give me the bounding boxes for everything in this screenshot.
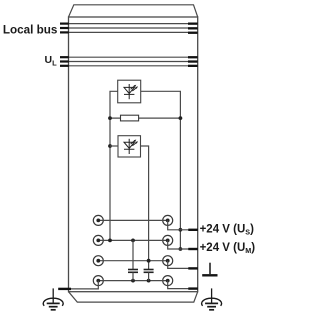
UL right terminal bars bbox=[188, 56, 198, 67]
wire row4 to right ground bar bbox=[168, 281, 198, 289]
terminal row 1 wire bbox=[98, 219, 167, 221]
wire row4 to left ground bar bbox=[69, 281, 99, 289]
UL left terminal bars bbox=[60, 56, 69, 67]
resistor R1 bbox=[121, 115, 139, 121]
terminal center dots bbox=[96, 219, 169, 283]
LED indicator D2 box bbox=[118, 136, 141, 157]
US feed bar bbox=[188, 229, 198, 231]
module body front face bbox=[69, 17, 198, 292]
LED D2 symbol bbox=[124, 139, 136, 154]
left protective earth symbol bbox=[43, 288, 63, 309]
local bus wire 2 bbox=[60, 27, 198, 29]
local bus wire 1 bbox=[60, 23, 198, 25]
junction dot net A / D2 bbox=[108, 144, 112, 148]
UL bus wire 1 bbox=[60, 56, 198, 58]
wire row2 to UM feed bar bbox=[168, 240, 198, 249]
LED D1 symbol bbox=[124, 84, 136, 99]
UM feed bar bbox=[188, 248, 198, 250]
wire D2 left pin bbox=[110, 145, 118, 147]
UL bus wire 3 bbox=[60, 65, 198, 67]
junction dot C1 top / row2 bbox=[131, 239, 135, 243]
terminal row 3 wire bbox=[98, 260, 167, 262]
wire row1 to US feed bar bbox=[168, 220, 198, 229]
wire D2 right to C2 rail bbox=[141, 146, 149, 270]
junction dot C1 bottom / row4 bbox=[131, 279, 135, 283]
LED D1 arrowheads bbox=[134, 85, 138, 89]
terminal circles right column bbox=[163, 215, 173, 285]
functional earth symbol bbox=[202, 263, 217, 276]
terminal circles left column bbox=[93, 215, 103, 285]
right protective earth symbol bbox=[202, 288, 222, 309]
local bus right terminal bars bbox=[188, 23, 198, 34]
local bus left terminal bars bbox=[60, 23, 69, 34]
UL bus wire 2 bbox=[60, 61, 198, 63]
LED indicator D1 box bbox=[118, 80, 141, 103]
junction dot C2 / row3 bbox=[147, 259, 151, 263]
LED D2 arrowheads bbox=[134, 140, 138, 144]
svg-text:Local bus: Local bus bbox=[3, 23, 58, 36]
terminal row 4 wire bbox=[98, 280, 167, 282]
junction dot C2 bottom / row4 bbox=[147, 279, 151, 283]
capacitor C2 wire bottom bbox=[148, 273, 150, 281]
wire left vertical net bbox=[110, 91, 118, 240]
junction dot net B / US rail bbox=[179, 228, 183, 232]
junction dot net B / resistor bbox=[179, 116, 183, 120]
left ground bar bbox=[58, 288, 71, 290]
terminal row 2 wire bbox=[98, 239, 167, 241]
capacitor C1 wire top bbox=[132, 240, 134, 269]
module top face (perspective) bbox=[69, 5, 198, 17]
local bus wire 3 bbox=[60, 31, 198, 33]
wire row3 to FE bar bbox=[168, 261, 198, 269]
module bottom face (perspective) bbox=[69, 292, 198, 302]
capacitor C1 wire bottom bbox=[132, 273, 134, 281]
right ground bar bbox=[188, 287, 198, 289]
junction dot net A / row2 bbox=[108, 239, 112, 243]
capacitor C2 plates bbox=[144, 270, 154, 273]
wire D1 right to net B bbox=[141, 91, 181, 249]
junction dot net A / resistor bbox=[108, 116, 112, 120]
junction dot net B / UM rail bbox=[179, 247, 183, 251]
capacitor C1 plates bbox=[128, 270, 138, 273]
FE bar right edge bbox=[188, 267, 198, 269]
wire resistor rail bbox=[110, 117, 180, 119]
